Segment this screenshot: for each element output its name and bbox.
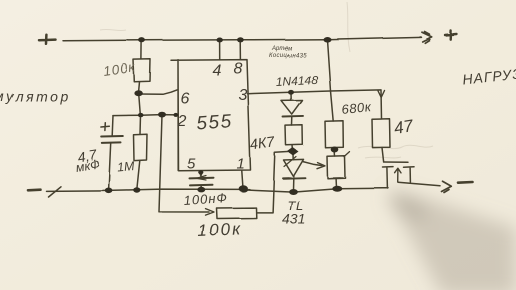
node pin5 stub: [198, 170, 203, 174]
wire feedback from node B left-down to R7: [257, 152, 290, 213]
diode D1 triangle: [282, 101, 303, 115]
node top rail 680k: [323, 37, 331, 43]
resistor R2 1M lead bottom: [137, 161, 140, 190]
TL431 U2 ref wire to pot wiper: [303, 162, 322, 166]
wire bottom rail: [46, 188, 388, 192]
node pin2/R2: [138, 113, 144, 117]
TL431 U2 triangle: [284, 159, 304, 176]
resistor R1 100k lead top: [140, 40, 142, 59]
resistor R7 100k bottom body: [217, 208, 257, 219]
wire pin5 stub blob: [199, 172, 202, 175]
wire arrow into load +: [422, 32, 432, 43]
node top rail R1: [139, 38, 146, 43]
svg-text:47: 47: [393, 116, 415, 138]
minus terminal load: [458, 181, 473, 184]
resistor R1 100k lead bottom: [138, 82, 141, 92]
node rail R2: [133, 187, 140, 192]
resistor R6 47 lead bottom: [382, 148, 384, 162]
svg-text:5: 5: [187, 156, 196, 173]
resistor R4 680k lead bottom: [333, 148, 336, 156]
resistor R3 4K7 body: [286, 125, 303, 145]
capacitor C1 plus mark: [101, 123, 109, 131]
svg-text:100нФ: 100нФ: [183, 190, 228, 208]
transistor Q1 middle arrow: [395, 168, 401, 182]
wire pin2 line: [113, 115, 177, 116]
wire Q1 output to minus: [398, 182, 440, 186]
transistor Q1 gate bar: [384, 161, 408, 163]
capacitor C2 plate top: [190, 177, 214, 180]
node pin2 line big blob: [158, 112, 166, 118]
resistor R4 680k body: [325, 121, 343, 148]
svg-text:1N4148: 1N4148: [275, 73, 318, 89]
transistor Q1 right terminal: [404, 167, 415, 182]
wire pin3 arrowhead down: [378, 91, 385, 98]
wire pin1 stub: [242, 171, 243, 187]
node pin3 diode: [288, 90, 294, 95]
node pin2 line at IC edge: [173, 113, 178, 117]
potentiometer R5 lead bottom: [335, 178, 337, 188]
wire pin2 node down to R7 with arrowhead: [159, 115, 209, 212]
capacitor C2 plate arrow tick: [197, 176, 207, 181]
wire output arrowhead: [442, 181, 452, 192]
svg-text:1: 1: [237, 156, 245, 173]
resistor R2 1M lead top: [139, 115, 142, 134]
capacitor C1 lead bottom: [109, 143, 111, 190]
TL431 U2 cathode bar: [283, 177, 305, 180]
capacitor C2 pin5 stub: [200, 171, 203, 177]
potentiometer R5 body: [327, 156, 345, 179]
diode D1 lead top: [290, 92, 292, 100]
TL431 U2 lead top: [292, 154, 294, 160]
shadow band bottom right (photo shadow): [384, 185, 516, 290]
TL431 ref arrowhead: [317, 163, 325, 169]
capacitor C2 plate bottom: [190, 184, 213, 187]
wire pin3 line: [248, 90, 382, 119]
node top rail pin4: [217, 38, 223, 43]
capacitor C2 lead bottom: [200, 185, 203, 189]
wire pin4: [219, 40, 221, 60]
svg-text:Артём: Артём: [271, 46, 292, 52]
node rail C1: [105, 188, 113, 194]
wire bottom rail left arrow tick: [48, 186, 61, 196]
svg-text:680к: 680к: [341, 99, 373, 117]
wire pin6 from node A: [139, 90, 177, 94]
svg-text:4: 4: [213, 63, 222, 80]
capacitor C1 plate bottom: [102, 141, 121, 144]
svg-text:Косицын435: Косицын435: [269, 53, 307, 59]
node B below 4K7: [288, 148, 299, 156]
svg-text:3: 3: [239, 87, 248, 104]
resistor R3 4K7 lead bottom: [292, 145, 294, 149]
plus terminal load +: [445, 30, 457, 39]
TL431 U2 slash mark: [284, 157, 296, 167]
wire top positive rail: [63, 37, 421, 41]
node 680k to pot: [331, 147, 339, 153]
diode D1 cathode bar: [283, 115, 304, 118]
svg-text:555: 555: [196, 111, 234, 134]
resistor R1 100k body: [134, 59, 151, 82]
minus terminal battery: [28, 188, 41, 191]
svg-text:мулятор: мулятор: [0, 88, 70, 104]
capacitor C1 lead top: [111, 116, 114, 136]
diode D1 lead bottom: [291, 117, 293, 126]
resistor R6 47 body: [372, 119, 390, 148]
svg-text:6: 6: [181, 91, 190, 108]
node rail pin1: [239, 185, 248, 192]
node A below R1: [134, 90, 142, 96]
TL431 U2 lead anode to rail: [292, 178, 294, 190]
svg-text:2: 2: [177, 113, 187, 130]
svg-text:8: 8: [234, 61, 243, 78]
svg-text:100к: 100к: [197, 219, 242, 240]
capacitor C1 plate top: [101, 135, 123, 138]
node rail C2: [197, 187, 205, 193]
wire node A down to pin2 line: [139, 95, 141, 115]
potentiometer R5 diagonal tick: [344, 152, 350, 157]
plus terminal battery +: [39, 35, 56, 44]
svg-text:431: 431: [282, 211, 305, 227]
resistor R2 1M body: [134, 134, 148, 160]
IC U1 555 body: [171, 60, 251, 171]
transistor Q1 left terminal: [383, 167, 394, 188]
svg-text:1М: 1М: [117, 159, 136, 175]
faint paper creases: [100, 2, 433, 158]
node top rail pin8: [237, 37, 244, 42]
wire pin8: [239, 40, 241, 60]
node rail TL431: [289, 189, 298, 195]
node rail pot: [332, 185, 342, 191]
wire 680k column from top rail: [327, 39, 333, 121]
